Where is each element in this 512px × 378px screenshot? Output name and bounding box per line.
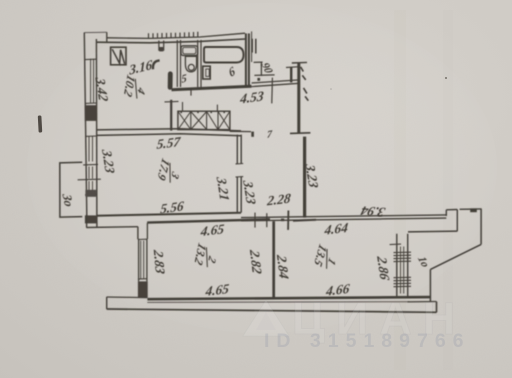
door tick a	[254, 213, 256, 228]
room label 2/13.2	[192, 241, 219, 272]
room1 window wall lines	[397, 234, 408, 298]
outer left wall outer line	[84, 33, 87, 216]
WC door tick	[190, 88, 192, 96]
balcony door cap	[85, 194, 97, 196]
balcony outline	[60, 162, 83, 217]
room1 window hatch upper	[394, 252, 412, 261]
room3 window mid tick	[83, 163, 98, 166]
door tick b	[266, 213, 268, 227]
toilet bowl	[185, 56, 196, 71]
room2 left inner line above window	[146, 223, 148, 239]
room1 window pane lines	[401, 247, 404, 294]
bath right wall thin outer	[251, 31, 253, 62]
bottom band top right	[408, 301, 437, 303]
room4 door leaf	[168, 74, 173, 88]
corridor door tick	[271, 78, 274, 104]
loggia top step vertical	[445, 210, 447, 216]
top wall lower line	[96, 39, 245, 43]
loggia top wall	[408, 230, 457, 233]
corridor ticks above closets	[183, 102, 218, 111]
room label 4/10.2	[121, 73, 148, 104]
hall bottom band upper	[241, 215, 446, 218]
WC bath dividing wall	[198, 40, 201, 87]
building edge wall upper	[297, 63, 300, 132]
room label 3/17.9	[155, 156, 183, 188]
hall right wall	[303, 137, 306, 218]
door swing arc room4	[153, 60, 160, 69]
left outer jog horizontal	[86, 226, 137, 229]
room1 window hatch lower	[394, 277, 412, 286]
entrance niche bottom line	[254, 74, 274, 77]
room4 right wall upper (WC left wall)	[177, 40, 180, 87]
rooms top wall (room2)	[147, 219, 270, 222]
top wall upper line	[107, 33, 245, 38]
vent square zigzag	[112, 49, 124, 64]
stray ink mark left margin	[38, 115, 42, 132]
room2 window pane lines	[141, 241, 144, 279]
room3 hall dividing wall lower	[237, 177, 241, 213]
entrance door jamb right	[290, 67, 292, 82]
loggia diagonal	[430, 244, 481, 269]
door blob	[281, 219, 284, 222]
room4 window pane lines	[91, 59, 94, 103]
bottom band left cap	[106, 297, 108, 309]
room1 window top tick	[390, 243, 401, 246]
balcony door long tick	[78, 178, 101, 181]
break dashes	[301, 67, 309, 101]
room3 window cap	[85, 135, 97, 137]
wall end dash at hall	[251, 132, 254, 137]
paper speck top right	[445, 77, 447, 79]
closet dividers	[191, 111, 218, 129]
left wall lower pier block	[85, 190, 96, 197]
vent square in room 4	[111, 47, 126, 65]
WC bath bottom wall	[172, 86, 252, 90]
toilet tank	[181, 46, 198, 56]
loggia left lower wall	[429, 269, 431, 301]
left wall pier block	[85, 105, 97, 121]
room4 right wall lower	[170, 100, 172, 131]
room3 bottom wall	[97, 213, 241, 216]
closet dots	[180, 112, 225, 114]
loggia ledge right	[460, 208, 482, 210]
entrance jamb tick	[286, 66, 298, 69]
top wall start stub	[106, 32, 108, 41]
top wall faint outer corner line	[84, 31, 107, 33]
bottom band right cap	[436, 302, 438, 313]
left wall corner block	[85, 215, 97, 223]
room label 1/13.5	[311, 242, 339, 275]
loggia top step horizontal	[446, 209, 457, 211]
outer left wall inner line	[95, 39, 98, 227]
room4 door tick	[165, 100, 179, 103]
left outer jog step down	[137, 227, 139, 240]
bottom band thin top	[147, 301, 409, 304]
vent bracket under top wall	[159, 41, 164, 51]
entrance jamb lines	[252, 39, 256, 54]
bath right wall thick	[245, 33, 247, 85]
toilet bowl circle	[188, 64, 194, 70]
faint scan streaks	[394, 10, 406, 370]
niche dot	[257, 78, 260, 81]
room2 window caps	[138, 239, 148, 279]
building edge wall foot	[290, 132, 310, 135]
room3 window pane lines	[89, 137, 93, 162]
paper speck faint	[330, 88, 332, 90]
bottom band bottom	[107, 309, 437, 312]
bathtub	[204, 47, 244, 63]
corridor top wall right segment	[252, 80, 299, 87]
balcony door lines	[89, 181, 93, 195]
watermark logo triangle	[243, 300, 289, 336]
hall right wall bottom T	[293, 220, 316, 221]
room1 room2 dividing wall	[272, 221, 275, 297]
room3 hall door ticks	[236, 164, 244, 178]
loggia inner step	[456, 210, 458, 232]
entrance niche top tick	[254, 61, 263, 63]
building edge wall top cap	[292, 61, 307, 64]
room4 bottom / room3 top wall lower line	[96, 134, 241, 136]
room4 window end caps	[85, 59, 96, 103]
room3 hall dividing wall upper	[237, 135, 241, 164]
room3 window lower lines	[89, 167, 93, 179]
left outer jog vertical	[86, 215, 88, 228]
bottom band top left	[107, 296, 148, 299]
closet diagonals	[178, 112, 229, 129]
door hinge cross tick	[287, 211, 289, 230]
rooms bottom wall	[147, 297, 430, 299]
closet block outline	[178, 111, 230, 129]
top wall T extension to hall	[230, 130, 251, 132]
loggia right wall	[480, 209, 482, 245]
entrance niche vertical	[260, 62, 262, 76]
hatch comb on top wall	[149, 32, 198, 39]
room2 window pier block	[138, 281, 148, 297]
bath sink block	[203, 66, 210, 79]
room4 bottom / room3 top wall upper line	[96, 129, 241, 131]
room2 window outer lines	[139, 239, 147, 282]
hall bottom band lower	[241, 218, 446, 221]
loggia ledge tick	[470, 208, 477, 212]
